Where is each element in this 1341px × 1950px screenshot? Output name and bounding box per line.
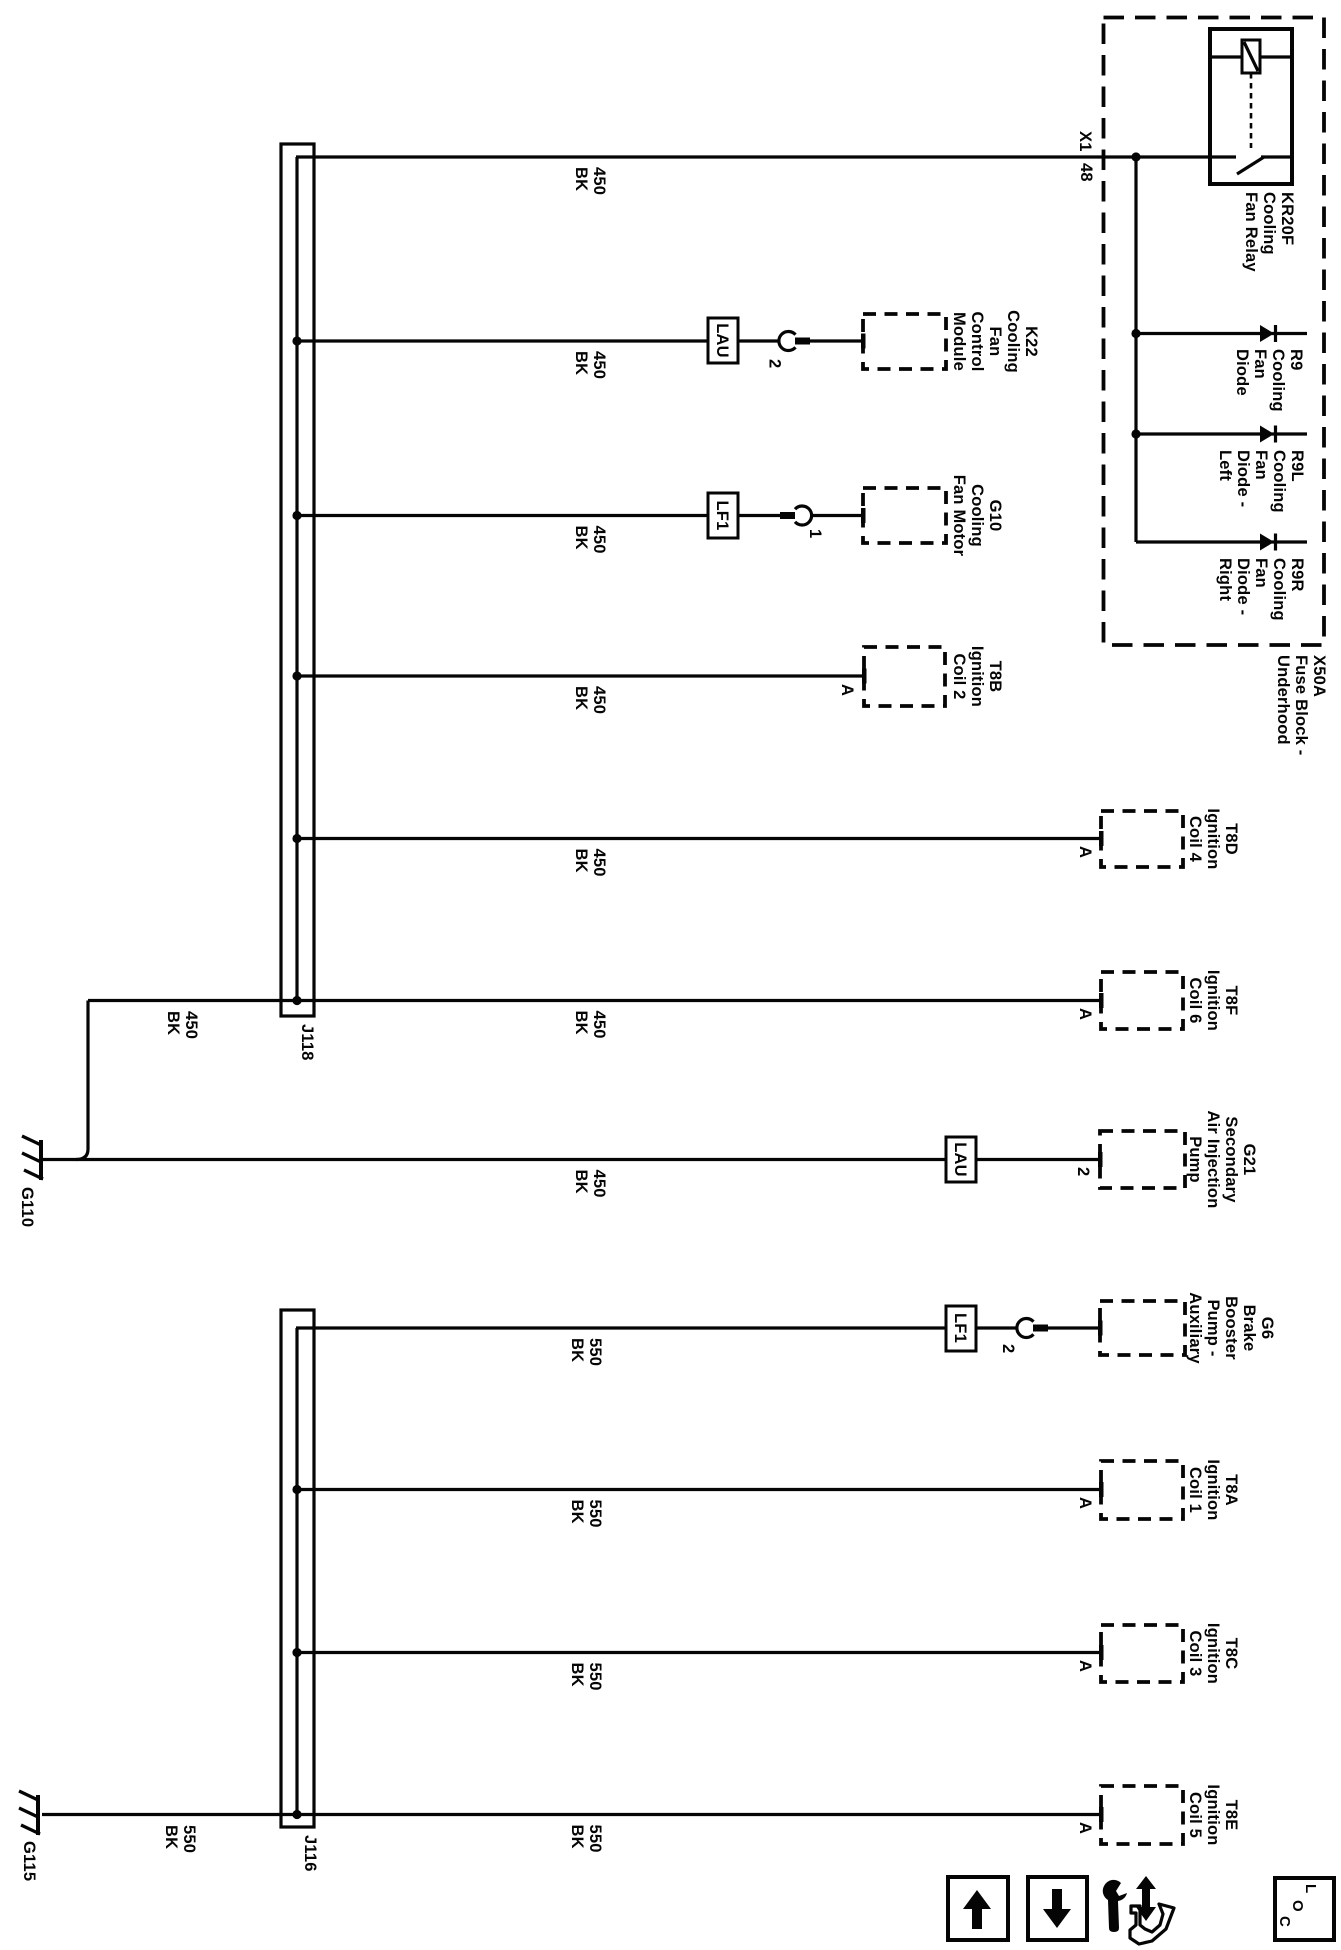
svg-text:G115: G115 [20, 1841, 38, 1881]
junction node T8C row [292, 1648, 301, 1657]
svg-text:G110: G110 [18, 1187, 36, 1227]
svg-text:LAU: LAU [951, 1142, 969, 1177]
pin bar T8E [1099, 1807, 1104, 1822]
svg-text:J116: J116 [301, 1835, 319, 1872]
pin bar G6 [1098, 1321, 1103, 1336]
svg-text:R9: R9 [1287, 349, 1305, 371]
svg-text:Cooling: Cooling [1270, 450, 1288, 513]
svg-text:BK: BK [572, 686, 590, 710]
relay KR20F coil/contact divider [1210, 55, 1292, 58]
label G115 [20, 1841, 38, 1881]
svg-text:1: 1 [806, 529, 824, 538]
label G6 Brake Booster Pump Auxiliary [1186, 1292, 1276, 1364]
svg-text:X1: X1 [1076, 131, 1094, 152]
svg-text:BK: BK [572, 351, 590, 375]
junction node T8A row [292, 1485, 301, 1494]
svg-text:Pump -: Pump - [1204, 1299, 1222, 1356]
icon harness up-down arrow [1136, 1876, 1156, 1921]
fuse block X50A Underhood dashed outline [1104, 18, 1325, 646]
svg-text:R9R: R9R [1288, 558, 1306, 592]
pin bar T8B [862, 669, 867, 684]
inline connector female half row 2 [779, 331, 796, 350]
svg-text:450: 450 [590, 849, 608, 877]
svg-text:Booster: Booster [1222, 1296, 1240, 1360]
label R9 Cooling Fan Diode [1233, 349, 1305, 412]
svg-text:Coil 2: Coil 2 [950, 653, 968, 699]
label T8C Ignition Coil 3 [1186, 1623, 1240, 1684]
svg-text:Ignition: Ignition [1204, 1784, 1222, 1845]
svg-text:Cooling: Cooling [1270, 558, 1288, 621]
wire G110 to G21 row [42, 1158, 946, 1161]
svg-text:BK: BK [568, 1500, 586, 1524]
icon wrench [1103, 1880, 1127, 1932]
label T8A Ignition Coil 1 [1186, 1459, 1240, 1520]
svg-text:BK: BK [572, 167, 590, 191]
connector LF1 G6 [946, 1306, 976, 1351]
inline connector female half row 3 [795, 506, 812, 525]
svg-text:G10: G10 [986, 500, 1004, 532]
svg-text:BK: BK [568, 1338, 586, 1362]
svg-text:Module: Module [950, 312, 968, 371]
svg-text:550: 550 [586, 1663, 604, 1691]
svg-text:2: 2 [999, 1344, 1017, 1353]
label 450 BK row 3 [572, 526, 608, 554]
icon arrow up box [948, 1877, 1008, 1940]
svg-text:Coil 5: Coil 5 [1186, 1792, 1204, 1838]
wire 450 BK row 6 (G110 to T8F through J118) [88, 999, 1099, 1002]
junction node row 5 [292, 834, 301, 843]
svg-text:450: 450 [590, 526, 608, 554]
label R9R Cooling Fan Diode Right [1216, 558, 1306, 621]
coil T8D dashed box [1101, 811, 1183, 867]
svg-text:J118: J118 [298, 1024, 316, 1061]
svg-text:A: A [1076, 1660, 1094, 1672]
wire 450 BK row 1 (J118 to relay) [296, 155, 1210, 158]
svg-text:Cooling: Cooling [968, 484, 986, 547]
coil T8C dashed box [1101, 1625, 1183, 1682]
inline connector male pin row 3 [780, 512, 795, 519]
label 450 BK row 6 [572, 1011, 608, 1039]
svg-text:BK: BK [568, 1825, 586, 1849]
svg-text:A: A [838, 684, 856, 696]
svg-text:Control: Control [968, 311, 986, 371]
splice pack J116 outer shell [281, 1310, 314, 1827]
wire to diode R9 [1136, 332, 1307, 335]
ground G110 symbol [22, 1136, 43, 1180]
svg-text:Fan: Fan [986, 327, 1004, 357]
pin A label T8F [1076, 1008, 1094, 1020]
diode R9L symbol [1260, 426, 1276, 443]
pump G6 dashed box [1100, 1301, 1185, 1355]
motor G10 dashed box [863, 488, 946, 543]
svg-text:L: L [1302, 1884, 1319, 1893]
svg-text:KR20F: KR20F [1278, 192, 1296, 245]
svg-text:450: 450 [590, 1170, 608, 1198]
svg-text:Ignition: Ignition [1204, 1459, 1222, 1520]
inline connector female half G6 [1017, 1318, 1034, 1337]
label T8F Ignition Coil 6 [1186, 970, 1240, 1031]
svg-text:450: 450 [590, 1011, 608, 1039]
junction node row 2 [292, 336, 301, 345]
fuse block X50A label [1274, 655, 1328, 756]
svg-text:X50A: X50A [1310, 655, 1328, 697]
pump G21 dashed box [1100, 1131, 1185, 1188]
icon LOC box [1275, 1878, 1334, 1940]
pin 2 label G6 [999, 1344, 1017, 1353]
ground G115 symbol [19, 1791, 40, 1835]
svg-text:BK: BK [162, 1825, 180, 1849]
svg-text:550: 550 [180, 1825, 198, 1853]
relay KR20F label [1242, 192, 1296, 272]
svg-text:C: C [1276, 1916, 1293, 1927]
label 450 BK row 1 [572, 167, 608, 195]
wire 550 BK T8A row [297, 1488, 1099, 1491]
pin 2 label G21 [1074, 1167, 1092, 1176]
splice pack J118 inner bar [295, 157, 298, 1001]
svg-text:Right: Right [1216, 558, 1234, 601]
svg-text:550: 550 [586, 1338, 604, 1366]
svg-text:R9L: R9L [1288, 450, 1306, 482]
label 450 BK row 4 [572, 686, 608, 714]
diode R9R symbol [1260, 534, 1276, 551]
relay KR20F box [1210, 29, 1292, 184]
icon harness branch outline [1130, 1904, 1174, 1944]
wire 550 BK T8E row (G115 to T8E) [42, 1813, 1099, 1816]
wire 450 BK row 5 (J118 to T8D) [297, 837, 1099, 840]
svg-text:BK: BK [572, 526, 590, 550]
pin bar T8F [1099, 993, 1104, 1008]
svg-text:O: O [1289, 1900, 1306, 1912]
svg-text:Pump: Pump [1186, 1136, 1204, 1183]
label T8E Ignition Coil 5 [1186, 1784, 1240, 1845]
label R9L Cooling Fan Diode Left [1216, 450, 1306, 513]
svg-text:Underhood: Underhood [1274, 655, 1292, 745]
pin bar G10 [861, 508, 866, 523]
label 550 BK T8C row [568, 1663, 604, 1691]
svg-text:LF1: LF1 [713, 501, 731, 531]
label 450 BK G21 row [572, 1170, 608, 1198]
pin 1 label G10 [806, 529, 824, 538]
svg-text:BK: BK [164, 1011, 182, 1035]
svg-text:K22: K22 [1022, 326, 1040, 357]
svg-text:2: 2 [766, 359, 784, 368]
relay KR20F switch blade [1210, 157, 1292, 174]
label G21 Secondary Air Injection Pump [1186, 1111, 1258, 1209]
pin bar T8A [1099, 1482, 1104, 1497]
svg-text:T8C: T8C [1222, 1638, 1240, 1670]
svg-text:Cooling: Cooling [1260, 192, 1278, 255]
svg-text:Left: Left [1216, 450, 1234, 481]
diode R9 symbol [1260, 325, 1276, 342]
relay KR20F coil [1242, 40, 1260, 73]
pin 48 label [1077, 163, 1095, 182]
coil T8F dashed box [1101, 972, 1183, 1029]
svg-text:Cooling: Cooling [1004, 310, 1022, 373]
svg-text:550: 550 [586, 1500, 604, 1528]
svg-text:Fan Motor: Fan Motor [950, 475, 968, 557]
junction node row 6 [292, 996, 301, 1005]
svg-text:Fan Relay: Fan Relay [1242, 192, 1260, 272]
wire to diode R9R [1136, 540, 1307, 543]
wire to diode R9L [1136, 432, 1307, 435]
svg-text:Fuse Block -: Fuse Block - [1292, 655, 1310, 756]
svg-text:Diode -: Diode - [1234, 450, 1252, 507]
svg-text:Cooling: Cooling [1269, 349, 1287, 412]
icon arrow down box [1028, 1877, 1087, 1940]
svg-text:Ignition: Ignition [1204, 1623, 1222, 1684]
svg-text:A: A [1076, 846, 1094, 858]
svg-text:450: 450 [590, 351, 608, 379]
svg-text:450: 450 [590, 686, 608, 714]
label 550 BK T8E row [568, 1825, 604, 1853]
svg-text:A: A [1076, 1008, 1094, 1020]
pin bar G21 [1098, 1152, 1103, 1167]
svg-text:Secondary: Secondary [1222, 1116, 1240, 1203]
wire 550 BK G6 row [296, 1326, 1099, 1329]
splice pack J118 outer shell [281, 144, 314, 1016]
relay KR20F actuator dashed link [1250, 73, 1253, 148]
svg-text:T8F: T8F [1222, 986, 1240, 1016]
svg-text:G6: G6 [1258, 1317, 1276, 1339]
svg-text:48: 48 [1077, 163, 1095, 182]
splice pack J116 inner bar [295, 1328, 298, 1815]
svg-text:A: A [1076, 1497, 1094, 1509]
pin A label T8A [1076, 1497, 1094, 1509]
svg-text:BK: BK [572, 1011, 590, 1035]
wire 450 BK row 2 (J118 to K22) [297, 339, 862, 342]
label T8D Ignition Coil 4 [1186, 808, 1240, 869]
svg-text:BK: BK [572, 849, 590, 873]
svg-text:450: 450 [590, 167, 608, 195]
svg-text:A: A [1076, 1822, 1094, 1834]
label J118 [298, 1024, 316, 1061]
svg-text:T8A: T8A [1222, 1474, 1240, 1506]
junction node R9 [1131, 329, 1140, 338]
connector LF1 row 3 [708, 493, 738, 538]
connector LAU row 2 [708, 318, 738, 363]
wire 550 BK T8C row [297, 1651, 1099, 1654]
junction node T8E row [292, 1810, 301, 1819]
inline connector male pin row 2 [795, 338, 810, 345]
pin A label T8D [1076, 846, 1094, 858]
connector LAU G21 [946, 1137, 976, 1182]
svg-text:Coil 1: Coil 1 [1186, 1467, 1204, 1513]
coil T8A dashed box [1101, 1461, 1183, 1519]
svg-text:LAU: LAU [713, 323, 731, 358]
svg-text:Air Injection: Air Injection [1204, 1111, 1222, 1209]
pin A label T8B [838, 684, 856, 696]
label G10 Cooling Fan Motor [950, 475, 1004, 557]
svg-text:450: 450 [182, 1011, 200, 1039]
svg-text:Ignition: Ignition [968, 646, 986, 707]
svg-text:Ignition: Ignition [1204, 808, 1222, 869]
label K22 Cooling Fan Control Module [950, 310, 1040, 373]
svg-text:Coil 6: Coil 6 [1186, 977, 1204, 1023]
label 450 BK row 2 [572, 351, 608, 379]
svg-text:2: 2 [1074, 1167, 1092, 1176]
svg-text:T8D: T8D [1222, 823, 1240, 855]
junction node row1 / diode branch [1131, 152, 1140, 161]
svg-text:Fan: Fan [1252, 450, 1270, 480]
inline connector male pin G6 [1033, 1325, 1048, 1332]
label 550 BK ground leg [162, 1825, 198, 1853]
junction node R9L [1131, 429, 1140, 438]
junction node row 4 [292, 671, 301, 680]
wire 450 BK to G21 [976, 1158, 1099, 1161]
label 450 BK row 5 [572, 849, 608, 877]
label 450 BK ground leg [164, 1011, 200, 1039]
label 550 BK G6 row [568, 1338, 604, 1366]
pin bar K22 [861, 334, 866, 349]
module K22 dashed box [863, 314, 946, 369]
svg-text:BK: BK [568, 1663, 586, 1687]
pin A label T8C [1076, 1660, 1094, 1672]
svg-text:BK: BK [572, 1170, 590, 1194]
label 550 BK T8A row [568, 1500, 604, 1528]
svg-text:LF1: LF1 [951, 1313, 969, 1343]
wire diode branch vertical [1134, 157, 1137, 542]
pin bar T8D [1099, 831, 1104, 846]
connector X1 label [1076, 131, 1094, 152]
svg-text:550: 550 [586, 1825, 604, 1853]
pin A label T8E [1076, 1822, 1094, 1834]
junction node row 3 [292, 511, 301, 520]
coil T8B dashed box [864, 647, 945, 706]
label J116 [301, 1835, 319, 1872]
pin 2 label K22 [766, 359, 784, 368]
svg-text:Brake: Brake [1240, 1305, 1258, 1352]
wire G110 drop leg [76, 1001, 88, 1160]
svg-text:G21: G21 [1240, 1144, 1258, 1176]
svg-text:T8E: T8E [1222, 1800, 1240, 1831]
svg-text:Auxiliary: Auxiliary [1186, 1292, 1204, 1364]
coil T8E dashed box [1101, 1786, 1183, 1844]
svg-text:T8B: T8B [986, 661, 1004, 693]
svg-text:Diode: Diode [1233, 349, 1251, 396]
svg-text:Coil 4: Coil 4 [1186, 816, 1204, 863]
label G110 [18, 1187, 36, 1227]
svg-text:Ignition: Ignition [1204, 970, 1222, 1031]
wire 450 BK row 4 (J118 to T8B) [297, 674, 862, 677]
svg-text:Coil 3: Coil 3 [1186, 1630, 1204, 1676]
svg-text:Diode -: Diode - [1234, 558, 1252, 615]
svg-text:Fan: Fan [1251, 349, 1269, 379]
svg-text:Fan: Fan [1252, 558, 1270, 588]
pin bar T8C [1099, 1645, 1104, 1660]
label T8B Ignition Coil 2 [950, 646, 1004, 707]
wire 450 BK row 3 (J118 to G10) [297, 514, 862, 517]
